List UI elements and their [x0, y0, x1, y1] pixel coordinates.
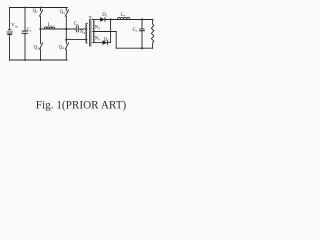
svg-text:NS: NS: [95, 26, 100, 31]
wire bridge mid left (Lr line): [41, 28, 45, 30]
wire input-cap branch lower: [24, 33, 26, 60]
wire leg B to primary bottom: [66, 39, 87, 41]
svg-text:Co: Co: [133, 28, 138, 33]
diode D2: [103, 40, 108, 45]
inductor Lr: [44, 27, 54, 29]
resistor R load: [151, 20, 153, 49]
wire D2 cathode to bus: [107, 42, 110, 44]
wire D1 cathode to output: [105, 19, 153, 21]
transistor Q2: [40, 29, 43, 60]
wire Cb to primary top: [78, 28, 87, 30]
labels: [11, 9, 138, 50]
wire top rail: [10, 7, 68, 9]
transformer T1 primary winding Np: [86, 23, 87, 43]
transistor Q3: [65, 8, 68, 40]
svg-text:D1: D1: [102, 13, 107, 18]
svg-text:Q3: Q3: [60, 10, 65, 15]
wire left branch upper: [9, 8, 11, 30]
svg-text:D2: D2: [104, 38, 109, 43]
wire input-cap branch upper: [24, 8, 26, 31]
capacitor Cb: [76, 26, 78, 32]
inductor Lo: [117, 17, 129, 19]
wire bottom rail: [10, 59, 68, 61]
svg-text:Cb: Cb: [74, 22, 79, 27]
wire secondary bottom to D2: [93, 42, 102, 44]
battery Vin: [7, 30, 13, 34]
wire Lr to Cb: [44, 28, 75, 30]
svg-text:Fig. 1(PRIOR ART): Fig. 1(PRIOR ART): [36, 99, 127, 111]
svg-text:C1: C1: [27, 28, 32, 33]
capacitor C1: [22, 31, 27, 33]
transformer core: [89, 20, 91, 47]
wire cathode bus vertical: [110, 20, 112, 43]
wire secondary top to D1: [93, 19, 100, 21]
wire center tap: [93, 31, 116, 33]
svg-text:T1: T1: [89, 16, 94, 21]
transformer secondary winding Ns (bottom): [93, 32, 94, 43]
transistor Q1: [40, 8, 43, 30]
svg-text:NP: NP: [80, 30, 85, 35]
svg-text:Q4: Q4: [59, 45, 64, 50]
diode D1: [100, 17, 105, 22]
capacitor Co: [140, 29, 144, 31]
transistor Q4: [65, 40, 68, 60]
wire center tap drop: [115, 32, 117, 49]
svg-text:Lo: Lo: [121, 13, 126, 18]
svg-text:Vin: Vin: [11, 24, 17, 29]
svg-text:Q1: Q1: [33, 9, 38, 14]
junction dots: [24, 7, 143, 62]
svg-text:Q2: Q2: [34, 46, 39, 51]
wire Co branch: [141, 20, 143, 29]
wire bottom output rail: [116, 47, 152, 49]
transformer secondary winding Ns (top): [93, 20, 94, 32]
svg-text:NS: NS: [95, 37, 100, 42]
wire left branch lower: [9, 35, 11, 60]
